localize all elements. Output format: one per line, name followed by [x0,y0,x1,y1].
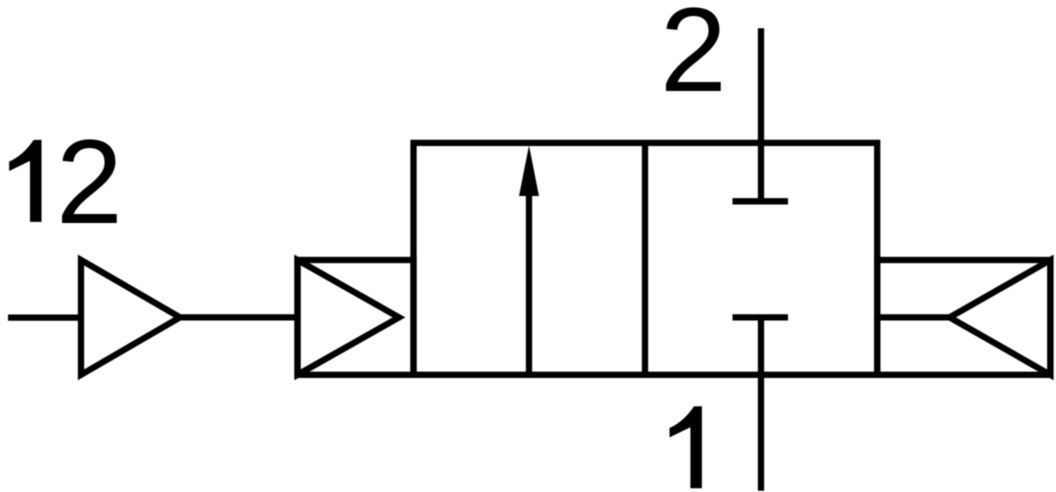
label 12 (pilot port): digit 1 [9,140,41,222]
port 1 blocked seat bar [733,314,789,320]
pilot actuator box (left) [298,260,414,375]
pilot signal triangle (free, pointing right) [81,260,180,375]
port 1 line (bottom) [758,317,764,490]
chamber divider [642,143,648,375]
wire: pilot triangle apex to pilot actuator box [180,314,298,320]
svg-text:2: 2 [660,0,727,117]
pilot return triangle (pointing left, inside right box) [950,260,1051,375]
label 1 (supply port) [670,406,702,488]
spring/pilot return box (right) [877,260,1050,375]
pilot actuator triangle (inside left box) [298,260,400,375]
port 2 blocked seat bar [733,198,789,204]
flow arrow head [519,146,539,197]
flow arrow shaft (left chamber) [526,196,532,375]
port 2 line (top) [758,28,764,201]
valve body outline (two chambers) [414,143,878,375]
wire: right box left edge to return triangle apex [877,314,949,320]
svg-text:2: 2 [56,115,123,249]
wire: pilot input line from left edge [8,314,81,320]
